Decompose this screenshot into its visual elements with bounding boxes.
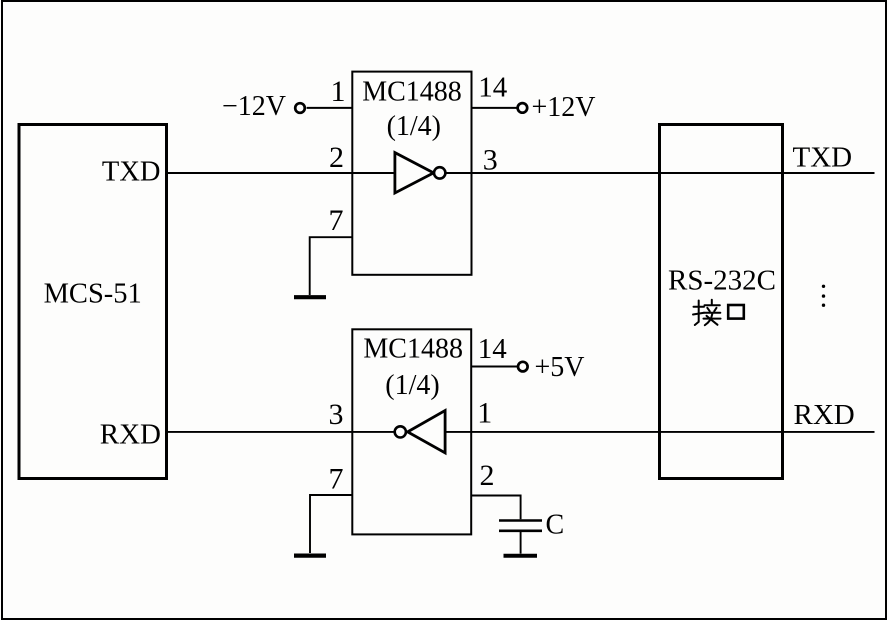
svg-text:TXD: TXD xyxy=(102,157,161,188)
driver U1 box MC1488 xyxy=(352,72,471,275)
wire pin7 U1 to ground xyxy=(310,237,353,295)
label jiekou char jie xyxy=(693,300,721,325)
svg-text:TXD: TXD xyxy=(793,142,853,174)
svg-text:14: 14 xyxy=(478,333,508,365)
svg-text:3: 3 xyxy=(329,398,344,431)
terminal -12V xyxy=(295,103,305,113)
svg-text:7: 7 xyxy=(329,463,344,496)
inverter gate U1 bubble xyxy=(434,167,445,178)
ground bar capacitor xyxy=(504,554,538,558)
svg-text:14: 14 xyxy=(478,71,508,103)
svg-text:+12V: +12V xyxy=(532,92,596,123)
ellipsis dots node xyxy=(822,285,825,307)
wire pin1 -12V xyxy=(307,107,353,109)
ground bar U2 xyxy=(294,553,326,557)
svg-text:RXD: RXD xyxy=(794,399,855,431)
svg-text:−12V: −12V xyxy=(222,91,286,122)
capacitor C top plate xyxy=(499,519,542,522)
capacitor C bottom plate xyxy=(499,529,542,532)
svg-text:RS-232C: RS-232C xyxy=(668,265,776,297)
wire RXD net xyxy=(168,431,875,433)
svg-text:3: 3 xyxy=(483,144,498,177)
wire capacitor to ground xyxy=(520,532,522,554)
svg-text:MCS-51: MCS-51 xyxy=(44,279,142,310)
MCS-51 block xyxy=(19,125,167,479)
inverter gate U1 triangle xyxy=(395,153,434,193)
label jiekou char kou xyxy=(728,305,744,319)
wire pin14 +5V xyxy=(471,366,518,368)
svg-text:2: 2 xyxy=(329,141,344,174)
wire pin7 U2 to ground xyxy=(310,495,352,553)
ground bar U1 xyxy=(294,295,326,299)
terminal +5V xyxy=(518,362,528,372)
inverter gate U2 triangle xyxy=(408,411,446,453)
svg-text:7: 7 xyxy=(329,204,344,237)
svg-text:RXD: RXD xyxy=(100,419,161,451)
svg-text:1: 1 xyxy=(477,396,492,429)
svg-text:1: 1 xyxy=(331,75,346,108)
svg-text:C: C xyxy=(546,510,565,541)
svg-text:MC1488: MC1488 xyxy=(362,77,462,108)
svg-text:2: 2 xyxy=(480,459,495,492)
wire TXD net xyxy=(168,172,875,174)
receiver U2 box MC1488 xyxy=(352,329,471,534)
svg-text:(1/4): (1/4) xyxy=(387,111,441,142)
wire pin14 +12V xyxy=(472,107,518,109)
svg-text:(1/4): (1/4) xyxy=(385,370,439,401)
wire pin2 U2 to capacitor xyxy=(471,496,520,520)
svg-text:+5V: +5V xyxy=(535,352,585,383)
inverter gate U2 bubble xyxy=(395,426,406,437)
terminal +12V xyxy=(518,103,528,113)
svg-text:MC1488: MC1488 xyxy=(363,334,463,365)
RS-232C interface block xyxy=(660,125,783,479)
